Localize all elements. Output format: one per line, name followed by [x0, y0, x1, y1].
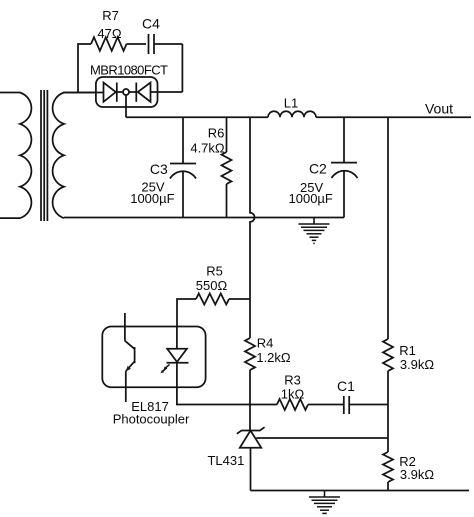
svg-text:L1: L1 [284, 96, 298, 111]
wire C1 to R1/R2 node [349, 404, 388, 406]
wire: main output rail left of L1 [126, 116, 268, 118]
svg-text:C1: C1 [337, 378, 355, 394]
capacitor C3 [170, 164, 196, 179]
wire: common cathode down to output rail [125, 95, 127, 117]
svg-text:C3: C3 [150, 161, 168, 177]
wire: bottom ground rail [251, 490, 470, 492]
wire R3 to C1 [308, 404, 344, 406]
svg-text:R6: R6 [208, 126, 225, 141]
svg-text:R4: R4 [257, 336, 274, 351]
wire: C2 top lead [343, 117, 345, 162]
svg-text:MBR1080FCT: MBR1080FCT [90, 62, 168, 77]
svg-text:Photocoupler: Photocoupler [113, 412, 190, 427]
wire: R4 bottom to R3 row [249, 370, 251, 405]
diode D1 (left half of MBR1080FCT) [104, 83, 117, 102]
wire: R1 branch from rail [387, 117, 389, 339]
LED D3 triangle [167, 349, 187, 362]
resistor R1 [383, 339, 393, 371]
inductor L1 [268, 111, 316, 117]
wire: TL431 ref line to divider node [256, 437, 388, 439]
svg-text:R3: R3 [284, 373, 301, 388]
ground symbol (middle, below ground rail) [299, 218, 330, 244]
optocoupler U3 package box EL817 [102, 327, 205, 388]
svg-text:47Ω: 47Ω [97, 26, 121, 41]
transformer T1 core [41, 90, 47, 221]
svg-text:R5: R5 [206, 264, 223, 279]
wire: secondary bottom / ground rail [64, 217, 344, 219]
svg-text:C4: C4 [142, 16, 160, 32]
resistor R6 [222, 152, 232, 184]
svg-text:3.9kΩ: 3.9kΩ [400, 357, 435, 372]
node: common cathode circle [123, 89, 129, 95]
wire: secondary top to diode [64, 92, 104, 94]
wire: R5 right lead to feedback line [229, 298, 250, 300]
svg-text:1000µF: 1000µF [130, 191, 174, 206]
svg-text:4.7kΩ: 4.7kΩ [190, 141, 225, 156]
wire: snubber right leg [181, 44, 183, 92]
diode D2 (right half of MBR1080FCT) [136, 83, 150, 102]
capacitor C2 [331, 163, 358, 178]
svg-text:R1: R1 [399, 343, 416, 358]
wire: R1 bottom to R2 top [387, 371, 389, 452]
svg-text:1kΩ: 1kΩ [281, 387, 305, 402]
wire: R6 top lead [226, 117, 228, 152]
ground symbol (bottom) [309, 491, 340, 514]
shunt regulator U4 TL431 triangle [240, 431, 261, 448]
shunt regulator U4 TL431 cathode bar [237, 427, 265, 434]
transformer T1 secondary winding [53, 93, 95, 219]
wire D2 anode to snubber [151, 91, 183, 93]
capacitor C4 [149, 34, 155, 54]
svg-text:TL431: TL431 [207, 453, 244, 468]
svg-text:Vout: Vout [425, 101, 453, 117]
LED D3 anode lead inside box [176, 327, 178, 349]
svg-text:1000µF: 1000µF [289, 191, 333, 206]
wire: C3 bottom lead [182, 171, 184, 218]
capacitor C1 [344, 396, 349, 414]
wire: TL431 cathode lead [249, 405, 251, 431]
svg-text:1.2kΩ: 1.2kΩ [256, 350, 291, 365]
resistor R5 [196, 294, 229, 305]
svg-text:R7: R7 [102, 8, 119, 23]
wire: R6 bottom lead [226, 184, 228, 218]
wire C4 to right leg [154, 43, 182, 45]
wire R7 to C4 [127, 43, 147, 45]
LED D3 light arrows [161, 364, 170, 373]
wire: C2 bottom lead [343, 171, 345, 218]
svg-text:550Ω: 550Ω [196, 278, 228, 293]
resistor R3 [277, 399, 308, 410]
wire node to D2 cathode [129, 91, 136, 93]
transistor Q1 emitter arrowhead [126, 366, 131, 371]
wire: C3 top lead [182, 117, 184, 163]
wire: TL431 anode down [250, 448, 252, 491]
transistor Q1 phototransistor collector stub [124, 313, 126, 341]
transistor Q1 emitter stub [125, 371, 127, 402]
transistor Q1 body [125, 341, 135, 371]
LED D3 cathode lead down and over to R3 row [177, 363, 277, 405]
rectifier U2 package MBR1080FCT box [96, 77, 158, 107]
resistor R2 [383, 452, 393, 482]
svg-text:C2: C2 [309, 161, 327, 177]
wire D1 cathode to node [116, 91, 123, 93]
transformer T1 primary winding [0, 93, 31, 219]
LED D3 cathode bar [167, 362, 189, 364]
wire: R2 bottom lead [387, 482, 389, 491]
resistor R4 [245, 338, 255, 370]
svg-text:3.9kΩ: 3.9kΩ [400, 467, 435, 482]
wire: R5 left lead from LED [177, 299, 196, 327]
resistor R7 [91, 37, 127, 51]
wire: snubber left leg [78, 44, 91, 93]
wire: main output rail right of L1 [316, 116, 471, 118]
wire: feedback line from rail with hop over ground rail [250, 117, 255, 338]
